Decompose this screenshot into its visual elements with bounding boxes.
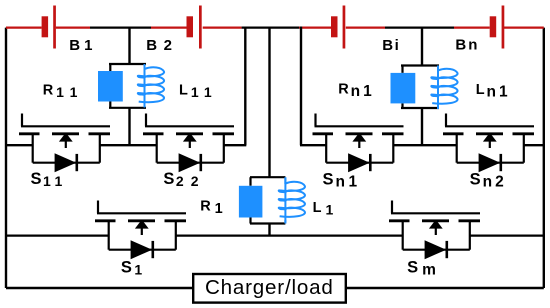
- wire: tap drop x301 to rail1: [300, 27, 302, 146]
- wire: top red segment right of Bi: [346, 26, 385, 28]
- svg-text:Sm: Sm: [407, 259, 436, 279]
- wire: top red segment left of Bn: [454, 26, 490, 28]
- node: Rn1/Ln1 top bar: [401, 64, 439, 66]
- wire: outer right border: [543, 28, 545, 288]
- inductor L11: [138, 64, 164, 108]
- wire: rail1 segment S22 to x245 tap: [224, 144, 247, 146]
- node: R11/L11 top bar: [109, 63, 146, 65]
- transistor Sm: [389, 201, 480, 260]
- transistor Sn1: [313, 114, 404, 173]
- svg-text:B1: B1: [69, 37, 96, 54]
- battery Bn: [490, 6, 505, 49]
- node: R1/L1 top bar: [250, 176, 285, 178]
- wire: B1-B2 junction drop: [128, 27, 130, 65]
- wire: Bi-Bn junction drop: [421, 27, 423, 66]
- wire: drop below R1L1 to rail2: [268, 224, 270, 236]
- wire: top black segment across B1-B2 junction: [90, 26, 151, 28]
- transistor Sn2: [443, 114, 534, 173]
- transistor S1: [95, 201, 186, 260]
- wire: bottom right segment from charger box: [346, 287, 544, 289]
- svg-text:Bi: Bi: [382, 37, 400, 54]
- svg-text:Ln1: Ln1: [476, 82, 511, 101]
- wire: top red segment right of B2: [203, 26, 242, 28]
- wire: rail1 segment left border to S11: [6, 144, 33, 146]
- wire: middle tap drop to R1L1: [268, 27, 270, 178]
- wire: top red segment left of B2: [151, 26, 187, 28]
- svg-text:Bn: Bn: [455, 37, 479, 54]
- wire: R1 branch stubs: [249, 177, 251, 223]
- battery Bi: [331, 6, 345, 49]
- inductor Ln1: [431, 66, 457, 110]
- svg-text:R11: R11: [43, 83, 84, 101]
- wire: rail2 segment Sm to right border: [470, 234, 544, 236]
- wire: rail1 segment Sn2 to right border: [524, 144, 544, 146]
- svg-text:Charger/load: Charger/load: [205, 276, 334, 299]
- resistor Rn1: [391, 73, 416, 104]
- resistor R1: [239, 186, 263, 218]
- wire: bottom left segment to charger box: [6, 287, 193, 289]
- transistor S22: [143, 114, 234, 173]
- svg-text:Rn1: Rn1: [338, 82, 375, 101]
- battery B1: [42, 6, 56, 49]
- wire: outer left border: [5, 28, 7, 288]
- wire: drop below Rn1Ln1 to rail1: [421, 108, 423, 145]
- wire: top red segment right of B1: [56, 26, 90, 28]
- node: R11/L11 bottom bar: [109, 107, 146, 109]
- wire: rail2 segment S1 to Sm: [176, 234, 403, 236]
- wire: rail1 segment Sn1 to Sn2: [393, 144, 456, 146]
- svg-text:B2: B2: [146, 37, 178, 54]
- wire: top red segment left of Bi: [299, 26, 331, 28]
- charger/load box: [193, 274, 346, 303]
- svg-text:L11: L11: [179, 83, 218, 101]
- wire: rail2 segment left border to S1: [6, 234, 109, 236]
- transistor S11: [19, 114, 110, 173]
- wire: rail1 segment x301 tap to Sn1: [300, 144, 326, 146]
- wire: tap drop x245 to rail1: [244, 27, 246, 146]
- svg-text:Sn1: Sn1: [323, 171, 361, 191]
- wire: R11 branch stubs: [109, 64, 111, 108]
- resistor R11: [98, 71, 123, 102]
- svg-text:Sn2: Sn2: [470, 171, 507, 191]
- svg-text:S1: S1: [121, 259, 143, 278]
- node: Rn1/Ln1 bottom bar: [401, 107, 439, 109]
- wire: drop below R11L11 to rail1: [128, 108, 130, 145]
- node: R1/L1 bottom bar: [250, 222, 285, 224]
- inductor L1: [279, 179, 305, 223]
- svg-text:S22: S22: [163, 170, 205, 189]
- wire: top red segment right of Bn: [504, 26, 544, 28]
- wire: Rn1 branch stubs: [401, 66, 403, 109]
- battery B2: [187, 6, 202, 49]
- svg-text:S11: S11: [31, 170, 67, 189]
- wire: top black segment across Bi-Bn tap: [385, 26, 454, 28]
- wire: rail1 segment S11 to S22: [100, 144, 157, 146]
- wire: top red segment left of B1: [6, 26, 42, 28]
- wire: top black segment across middle taps: [242, 26, 299, 28]
